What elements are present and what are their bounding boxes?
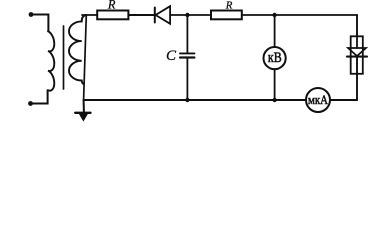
svg-text:мкА: мкА xyxy=(308,92,329,107)
tube anode stem xyxy=(356,36,358,48)
node C1 (bottom of capacitor) xyxy=(185,98,189,102)
kV meter branch upper wire xyxy=(274,15,276,47)
wire primary bottom to terminal xyxy=(31,90,48,103)
ground symbol xyxy=(75,113,90,122)
secondary return wire xyxy=(84,15,87,100)
diode VD1 xyxy=(155,6,170,24)
microammeter PA (мкА) xyxy=(306,88,330,112)
resistor R1 xyxy=(97,11,128,20)
wire R1 to diode xyxy=(128,14,154,16)
rectifier tube VL1 envelope xyxy=(351,36,363,74)
wire tube bottom down xyxy=(356,57,358,100)
svg-text:R: R xyxy=(225,0,233,11)
capacitor branch upper wire xyxy=(186,15,188,53)
wire diode to node A xyxy=(170,14,210,16)
tube diode triangle xyxy=(348,48,366,56)
svg-text:кВ: кВ xyxy=(268,50,282,66)
node B (top of kV meter) xyxy=(272,13,276,17)
wire tube to microammeter xyxy=(330,99,357,101)
svg-text:C: C xyxy=(166,48,177,64)
wire top-left terminal to corner xyxy=(31,15,48,32)
terminal dot bottom-left xyxy=(28,101,33,106)
voltmeter PV (кВ) xyxy=(264,47,286,69)
node D (bottom of kV meter) xyxy=(272,98,276,102)
kV meter branch lower wire xyxy=(274,69,276,100)
node A (top of capacitor) xyxy=(185,13,189,17)
wire top-right corner down to tube xyxy=(356,15,358,36)
capacitor C xyxy=(180,53,194,57)
primary winding L1 xyxy=(48,31,54,90)
terminal dot top-left xyxy=(29,12,34,17)
wire ground stem xyxy=(83,100,85,112)
resistor R2 xyxy=(211,11,242,20)
svg-text:R: R xyxy=(107,0,116,12)
bottom rail xyxy=(84,99,306,101)
transformer core xyxy=(63,26,65,89)
capacitor branch lower wire xyxy=(186,58,188,101)
secondary winding L2 xyxy=(69,15,86,84)
tube cathode bar xyxy=(347,56,367,58)
wire R2 to top-right corner xyxy=(242,14,357,16)
wire top rail to R1 xyxy=(82,14,97,16)
